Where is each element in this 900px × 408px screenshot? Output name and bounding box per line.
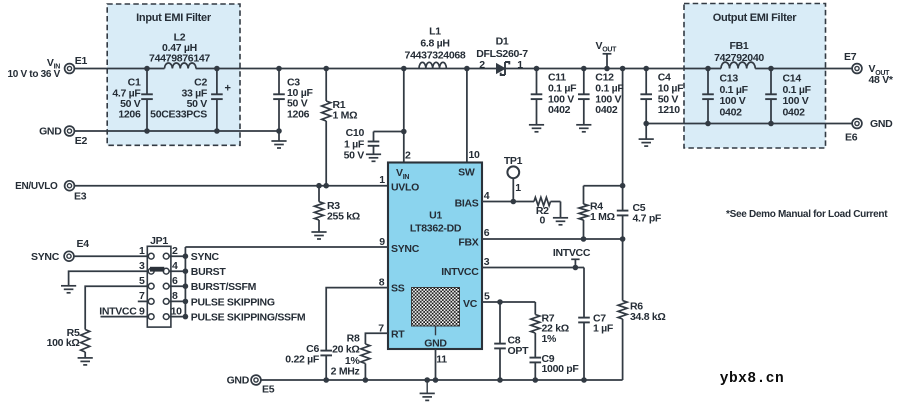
JP1 pin circles row 3 (148, 283, 154, 289)
svg-text:0402: 0402 (595, 104, 618, 116)
svg-text:34.8 kΩ: 34.8 kΩ (630, 311, 666, 323)
resistor R8 (361, 344, 370, 364)
svg-text:L1: L1 (429, 26, 441, 38)
svg-text:D1: D1 (496, 36, 509, 48)
wire RT pin 7 to R8 (365, 333, 388, 344)
ground below bottom rail (426, 380, 428, 393)
svg-text:1 µF: 1 µF (593, 323, 614, 335)
svg-text:2 MHz: 2 MHz (331, 366, 360, 378)
wire top rail FB1 to E7 (755, 68, 852, 70)
svg-text:0402: 0402 (783, 107, 806, 119)
svg-text:U1: U1 (429, 209, 442, 221)
ground below R5 (78, 357, 93, 359)
terminal E2 (65, 126, 75, 136)
wire EN/UVLO to UVLO pin 1 (74, 185, 388, 187)
svg-text:0.1 µF: 0.1 µF (720, 84, 749, 96)
capacitor C7 (583, 268, 585, 318)
svg-text:20 kΩ: 20 kΩ (332, 344, 359, 356)
svg-text:3: 3 (484, 256, 490, 268)
resistor R5 (81, 330, 90, 353)
JP1 pin circles row 1 (148, 253, 154, 259)
wire JP1 row 5 to bus (169, 316, 185, 318)
svg-text:RT: RT (391, 329, 405, 341)
wire divider top bus (584, 185, 623, 187)
svg-text:1: 1 (379, 174, 385, 186)
wire JP1 row 3 to bus (169, 285, 185, 287)
output EMI filter box (684, 4, 826, 149)
capacitor C14 (770, 69, 772, 95)
wire FBX pin 6 (482, 238, 623, 240)
svg-text:100 V: 100 V (720, 95, 746, 107)
svg-text:1: 1 (515, 182, 521, 194)
svg-text:E4: E4 (77, 238, 90, 250)
svg-text:50 V: 50 V (344, 149, 365, 161)
svg-text:2: 2 (479, 59, 485, 71)
capacitor C8 (499, 302, 501, 344)
wire INTVCC pin 3 (482, 267, 584, 269)
svg-text:74437324068: 74437324068 (405, 49, 466, 61)
svg-text:E2: E2 (75, 135, 88, 147)
svg-text:PULSE SKIPPING/SSFM: PULSE SKIPPING/SSFM (191, 312, 306, 324)
svg-text:E5: E5 (262, 384, 275, 396)
wire JP1 pin 3 to ground (69, 271, 149, 286)
JP1 pin circles row 4 (148, 299, 154, 305)
svg-text:10: 10 (171, 305, 183, 317)
terminal E1 (65, 64, 75, 74)
ground below pin 3 wire (61, 285, 76, 287)
svg-text:8: 8 (172, 290, 178, 302)
svg-text:10: 10 (468, 149, 480, 161)
wire VC pin 5 (482, 301, 535, 303)
svg-text:SW: SW (458, 167, 475, 179)
svg-text:*See Demo Manual for Load Curr: *See Demo Manual for Load Current (726, 209, 888, 220)
svg-text:FB1: FB1 (730, 40, 749, 52)
svg-text:0.1 µF: 0.1 µF (783, 84, 812, 96)
capacitor C12 (583, 69, 585, 95)
svg-text:0402: 0402 (720, 107, 743, 119)
svg-text:74479876147: 74479876147 (149, 52, 210, 64)
svg-text:100 kΩ: 100 kΩ (47, 337, 80, 349)
svg-text:GND: GND (39, 126, 62, 138)
wire SS pin 8 to C6 (326, 288, 388, 351)
wire BIAS pin 4 (482, 201, 534, 203)
svg-text:+: + (224, 83, 230, 95)
terminal E6 (852, 119, 862, 129)
terminal E3 (65, 181, 75, 191)
svg-text:0: 0 (540, 215, 546, 227)
capacitor C5 (622, 186, 624, 211)
svg-text:E3: E3 (74, 191, 87, 203)
wire JP1 pin 5 to R5 (85, 286, 148, 329)
svg-text:8: 8 (379, 276, 385, 288)
svg-text:INTVCC: INTVCC (553, 247, 591, 259)
op-amp U1 LT8362-DD body (388, 163, 482, 350)
ground below C10 (366, 153, 381, 155)
ground below C11 (529, 124, 544, 126)
terminal E5 (251, 375, 261, 385)
svg-text:6: 6 (172, 275, 178, 287)
svg-text:100 V: 100 V (783, 95, 809, 107)
svg-text:5: 5 (484, 291, 490, 303)
wire VIN pin 2 drop (403, 69, 405, 163)
ground below C4 (639, 138, 654, 140)
svg-text:VC: VC (463, 298, 478, 310)
terminal E7 (852, 64, 862, 74)
capacitor C2 (216, 69, 218, 95)
wire JP1 row 4 to bus (169, 300, 185, 302)
svg-text:GND: GND (227, 375, 250, 387)
svg-text:E7: E7 (844, 51, 857, 63)
svg-text:1: 1 (139, 245, 145, 257)
wire top rail E1 to L2 (75, 68, 165, 70)
svg-text:SYNC: SYNC (31, 251, 60, 263)
svg-text:Output EMI Filter: Output EMI Filter (713, 12, 798, 24)
test point TP1 (507, 166, 519, 178)
svg-text:SYNC: SYNC (191, 251, 220, 263)
jumper shunt on pins 3-4 (150, 267, 164, 272)
svg-text:6: 6 (484, 227, 490, 239)
svg-text:1210: 1210 (658, 104, 681, 116)
input EMI filter box (107, 4, 240, 145)
resistor R3 (315, 202, 324, 220)
svg-text:JP1: JP1 (150, 235, 168, 247)
svg-text:3: 3 (139, 260, 145, 272)
wire output ground rail (646, 123, 852, 125)
capacitor C6 (320, 350, 332, 352)
INTVCC net wire at JP1 pin 9 (101, 316, 148, 318)
wire JP1 bus to SYNC pin 9 (185, 246, 388, 248)
svg-text:1%: 1% (542, 333, 558, 345)
svg-text:UVLO: UVLO (391, 181, 419, 193)
ground after R2 (553, 217, 568, 219)
svg-text:10 V to 36 V: 10 V to 36 V (7, 69, 60, 80)
svg-text:E6: E6 (845, 132, 858, 144)
JP1 right bus (184, 247, 186, 317)
resistor R2 (534, 197, 551, 205)
svg-text:6.8 µH: 6.8 µH (420, 38, 449, 50)
resistor R1 (325, 69, 327, 102)
svg-text:BURST/SSFM: BURST/SSFM (191, 281, 257, 293)
svg-text:4.7 pF: 4.7 pF (633, 213, 662, 225)
svg-text:5: 5 (139, 275, 145, 287)
capacitor C4 (645, 69, 647, 95)
svg-text:1206: 1206 (287, 108, 310, 120)
svg-text:TP1: TP1 (504, 155, 523, 167)
svg-text:4: 4 (172, 260, 178, 272)
INTVCC net flag (574, 259, 576, 267)
jumper header JP1 body (147, 246, 171, 327)
VOUT net flag (606, 54, 608, 69)
svg-text:OPT: OPT (508, 345, 530, 357)
svg-text:C14: C14 (783, 73, 802, 85)
JP1 pin circles row 5 (148, 314, 154, 320)
wire JP1 row 2 to bus (169, 270, 185, 272)
wire top rail D1 to FB1 (505, 68, 721, 70)
wire JP1 row 1 to bus (169, 255, 185, 257)
capacitor C10 (374, 131, 404, 133)
svg-text:GND: GND (424, 337, 447, 349)
capacitor C3 (278, 69, 280, 95)
svg-text:INTVCC: INTVCC (99, 305, 137, 317)
svg-text:1 MΩ: 1 MΩ (333, 110, 358, 122)
svg-text:1 MΩ: 1 MΩ (590, 211, 615, 223)
svg-text:2: 2 (172, 245, 178, 257)
ground below R3 (311, 231, 326, 233)
svg-text:INTVCC: INTVCC (441, 266, 479, 278)
svg-text:0.22 µF: 0.22 µF (285, 354, 320, 366)
wire E4 to JP1 pin 1 (74, 255, 148, 257)
JP1 pin circles row 2 (148, 268, 154, 274)
svg-text:Input EMI Filter: Input EMI Filter (136, 12, 212, 24)
ferrite bead FB1 (721, 62, 755, 68)
svg-text:C10: C10 (346, 127, 365, 139)
wire bottom ground rail (261, 379, 623, 381)
svg-text:BURST: BURST (191, 266, 227, 278)
capacitor C13 (707, 69, 709, 95)
svg-text:SS: SS (391, 282, 405, 294)
capacitor C1 (146, 69, 148, 95)
svg-text:4: 4 (484, 190, 490, 202)
svg-text:LT8362-DD: LT8362-DD (410, 222, 462, 234)
terminal E4 (64, 251, 74, 261)
svg-text:0402: 0402 (548, 104, 571, 116)
JP1 pin 7 stub (138, 300, 148, 302)
svg-text:SYNC: SYNC (391, 243, 420, 255)
svg-text:E1: E1 (75, 55, 88, 67)
svg-text:BIAS: BIAS (455, 198, 479, 210)
ground below C3 (271, 140, 286, 142)
wire SW pin 10 drop (466, 69, 468, 163)
svg-text:255 kΩ: 255 kΩ (327, 210, 360, 222)
wire top rail L2 to D1 (196, 68, 497, 70)
capacitor C9 (530, 357, 542, 359)
svg-text:FBX: FBX (458, 237, 478, 249)
svg-text:48 V*: 48 V* (869, 74, 894, 86)
capacitor C11 (536, 69, 538, 95)
svg-text:742792040: 742792040 (714, 52, 764, 64)
svg-text:R8: R8 (347, 333, 360, 345)
svg-text:1000 pF: 1000 pF (542, 363, 580, 375)
svg-text:EN/UVLO: EN/UVLO (15, 181, 58, 192)
svg-text:1206: 1206 (118, 109, 141, 121)
svg-text:7: 7 (139, 290, 145, 302)
resistor R7 (534, 302, 536, 315)
resistor R6 (622, 239, 624, 301)
resistor R4 (583, 186, 585, 204)
exposed pad GND (412, 288, 460, 327)
wire GND pin 11 (435, 349, 437, 380)
svg-text:C13: C13 (720, 73, 739, 85)
svg-text:PULSE SKIPPING: PULSE SKIPPING (191, 296, 275, 308)
ground below C12 (576, 124, 591, 126)
svg-text:9: 9 (139, 305, 145, 317)
svg-text:2: 2 (405, 149, 411, 161)
diode D1 (497, 64, 506, 74)
wire VOUT to divider (622, 69, 624, 186)
inductor L2 (165, 63, 197, 69)
svg-text:50CE33PCS: 50CE33PCS (150, 109, 207, 121)
svg-text:ybx8.cn: ybx8.cn (720, 371, 784, 387)
wire input ground rail (75, 130, 279, 132)
inductor L1 (419, 62, 446, 68)
svg-text:11: 11 (436, 353, 447, 365)
svg-text:GND: GND (870, 118, 893, 130)
